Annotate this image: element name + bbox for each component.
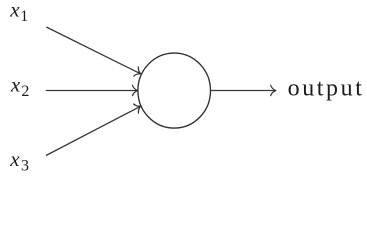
svg-text:x: x [9, 0, 20, 21]
svg-text:3: 3 [21, 158, 29, 175]
arrowhead x3 [134, 101, 144, 113]
wire x2 to neuron [46, 90, 138, 92]
wire x1 to neuron [46, 27, 140, 74]
arrowhead x2 [132, 85, 138, 95]
svg-text:output: output [288, 75, 365, 101]
arrowhead output [271, 85, 277, 95]
svg-text:x: x [10, 72, 21, 96]
svg-text:2: 2 [21, 83, 29, 100]
svg-text:x: x [9, 147, 20, 171]
arrowhead x1 [134, 67, 144, 79]
wire x3 to neuron [46, 106, 140, 155]
neuron circle [138, 53, 211, 128]
svg-text:1: 1 [20, 8, 28, 25]
wire neuron to output [211, 90, 276, 92]
